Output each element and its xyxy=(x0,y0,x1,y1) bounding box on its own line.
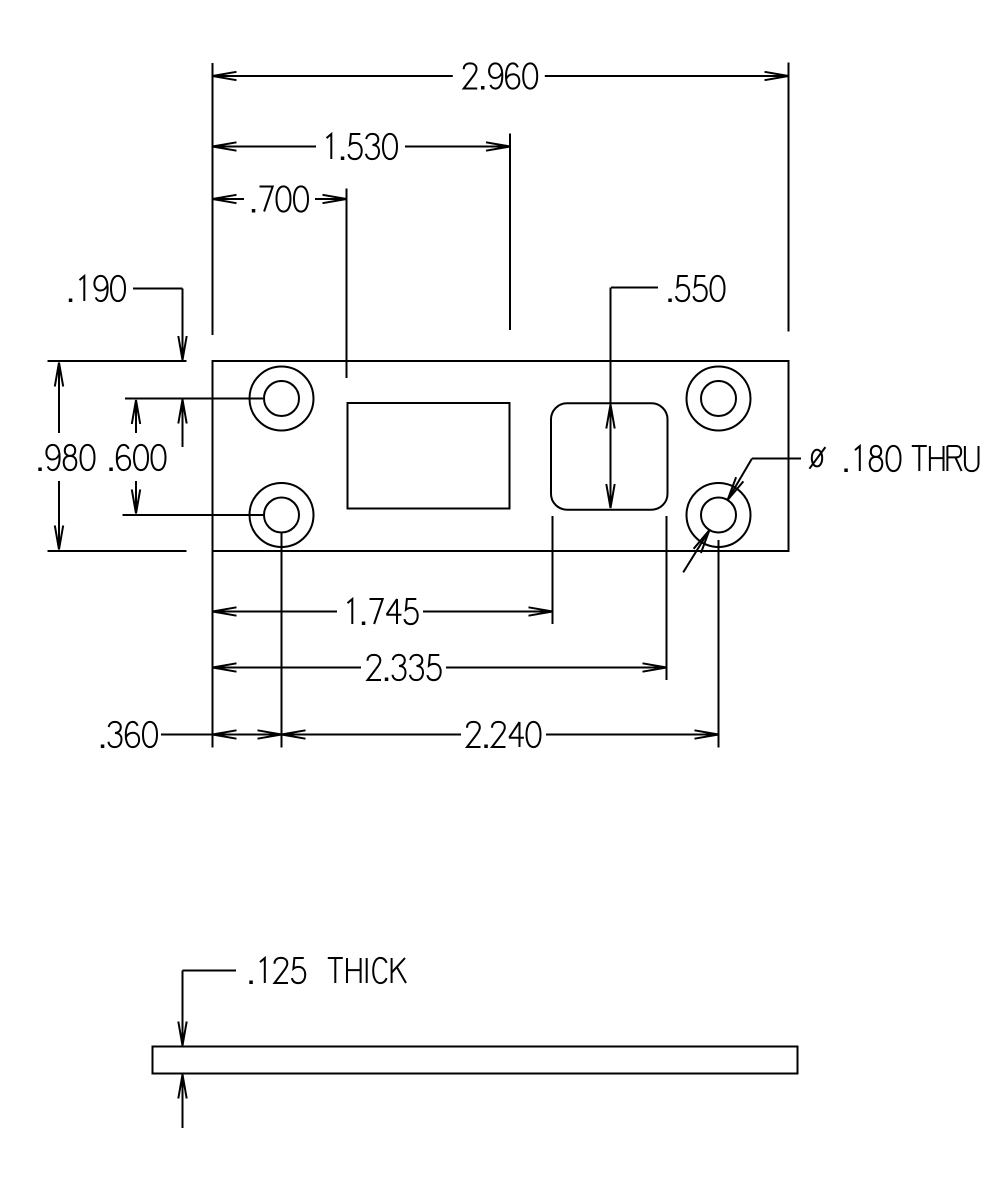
dim .600 arrow down xyxy=(132,490,140,514)
hole top-left outer xyxy=(250,367,314,431)
dim .125 leader xyxy=(183,970,237,972)
dim .125 text xyxy=(260,958,305,983)
rounded square cutout xyxy=(551,403,668,509)
hole bottom-left inner (.180 thru) xyxy=(264,498,299,533)
plate outline (top view) xyxy=(213,361,789,551)
hole top-left inner (.180 thru) xyxy=(264,381,299,416)
hole top-right outer xyxy=(687,367,751,431)
dim 1.745 arrow right xyxy=(529,607,553,615)
dim .600 line lower xyxy=(135,481,137,514)
dim .190 leader xyxy=(133,288,183,290)
dim 1.530 line xyxy=(213,146,317,148)
dim .360 text xyxy=(109,722,158,747)
dim 1.530 arrow left xyxy=(213,142,237,150)
dim 1.745 text xyxy=(348,599,418,624)
dim 1.530 arrow right xyxy=(486,142,510,150)
dim .700 arrow left xyxy=(213,195,237,203)
side view plate bar xyxy=(153,1047,798,1074)
dim .360 leader xyxy=(161,734,213,736)
dim .550 arrow down xyxy=(606,484,614,508)
plate bottom edge extension xyxy=(48,550,187,552)
upper hole centerline xyxy=(125,398,263,400)
dia .180 lower diagonal xyxy=(683,530,709,572)
dim .700 text xyxy=(260,186,309,211)
dim .190 arrow up xyxy=(178,400,186,424)
dim .360 line xyxy=(213,734,282,736)
dim .550 line xyxy=(610,288,612,509)
dim .980 text xyxy=(46,445,94,470)
hole bottom-right inner (.180 thru) xyxy=(701,498,736,533)
dim 2.960 text xyxy=(464,63,538,88)
lower hole centerline xyxy=(123,514,264,516)
dia .180 THRU text xyxy=(809,447,825,469)
dim 2.335 extension line xyxy=(666,516,668,680)
dia .180 text number xyxy=(855,446,901,471)
dim 2.960 extension line left xyxy=(212,63,214,335)
dia .180 arrow upper xyxy=(728,477,744,500)
dia .180 arrow lower xyxy=(694,530,710,553)
dim 1.530 text xyxy=(327,134,398,159)
dim .980 arrow up xyxy=(55,363,63,387)
dim .550 text xyxy=(676,276,725,301)
dim 2.960 line xyxy=(213,75,453,77)
dim .700 extension line xyxy=(346,189,348,379)
dim .980 line lower xyxy=(58,481,60,550)
dim .190 text xyxy=(80,276,126,301)
dim .600 arrow up xyxy=(132,400,140,424)
left edge extension below xyxy=(212,551,214,748)
dim .190 arrow down xyxy=(178,336,186,360)
dia .180 text THRU xyxy=(912,446,979,471)
dim 2.240 line xyxy=(282,734,462,736)
dim .125 arrow down xyxy=(178,1022,186,1046)
dim 2.960 arrow right xyxy=(765,72,789,80)
dim .360 arrow right xyxy=(258,730,282,738)
dim 1.745 extension line xyxy=(552,516,554,624)
hole top-right inner (.180 thru) xyxy=(701,381,736,416)
dim 1.530 extension line xyxy=(509,134,511,331)
dim .550 arrow up xyxy=(606,405,614,429)
dim .600 text xyxy=(117,445,166,470)
dim .600 line upper xyxy=(135,400,137,433)
dim 2.240 text xyxy=(467,722,541,747)
rectangular cutout xyxy=(348,403,510,509)
dia .180 leader horizontal xyxy=(752,458,801,460)
dim THICK text xyxy=(328,958,406,983)
dim 2.335 line xyxy=(213,667,362,669)
dim .700 arrow right xyxy=(323,195,347,203)
dim .700 line xyxy=(213,198,245,200)
dim .550 leader xyxy=(611,287,658,289)
dim .980 arrow down xyxy=(55,526,63,550)
dim .125 arrow up xyxy=(178,1075,186,1099)
dim 1.745 line xyxy=(213,611,338,613)
dim 2.240 arrow right xyxy=(695,730,719,738)
dim .190 lower shaft xyxy=(182,400,184,448)
dim 2.960 extension line right xyxy=(788,63,790,332)
hole center extension left xyxy=(281,533,283,748)
hole center extension right xyxy=(718,540,720,748)
dim 2.335 arrow right xyxy=(643,663,667,671)
dim 2.335 arrow left xyxy=(213,663,237,671)
dim 2.960 arrow left xyxy=(213,72,237,80)
dim .125 lower shaft xyxy=(182,1075,184,1129)
dim 2.240 arrow left xyxy=(282,730,306,738)
dim .980 line upper xyxy=(58,363,60,434)
dim .360 arrow left xyxy=(213,730,237,738)
hole bottom-left outer xyxy=(250,483,314,547)
hole bottom-right outer xyxy=(687,483,751,547)
plate top edge extension xyxy=(48,360,187,362)
dim 1.745 arrow left xyxy=(213,607,237,615)
dim 2.335 text xyxy=(368,655,441,680)
dia .180 leader diagonal xyxy=(728,459,752,501)
